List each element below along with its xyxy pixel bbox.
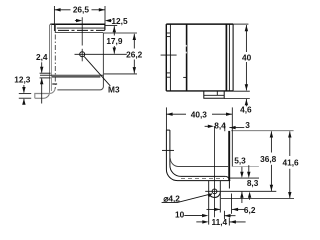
svg-text:10: 10 bbox=[175, 210, 185, 220]
svg-text:8,4: 8,4 bbox=[214, 120, 226, 130]
svg-text:M3: M3 bbox=[108, 84, 120, 94]
svg-text:12,5: 12,5 bbox=[111, 16, 128, 26]
svg-text:6,2: 6,2 bbox=[244, 205, 256, 215]
svg-text:8,3: 8,3 bbox=[247, 178, 259, 188]
svg-text:11,4: 11,4 bbox=[211, 217, 227, 227]
svg-text:⌀4,2: ⌀4,2 bbox=[163, 193, 180, 203]
svg-text:5,3: 5,3 bbox=[234, 156, 246, 166]
svg-text:2,4: 2,4 bbox=[36, 52, 48, 62]
svg-text:4,6: 4,6 bbox=[240, 104, 252, 114]
svg-text:40,3: 40,3 bbox=[191, 109, 208, 119]
svg-text:17,9: 17,9 bbox=[106, 36, 123, 46]
svg-text:26,5: 26,5 bbox=[73, 5, 90, 15]
svg-text:12,3: 12,3 bbox=[14, 74, 31, 84]
svg-text:36,8: 36,8 bbox=[260, 154, 277, 164]
svg-text:41,6: 41,6 bbox=[283, 157, 300, 167]
svg-text:3: 3 bbox=[245, 120, 250, 130]
svg-text:40: 40 bbox=[242, 52, 252, 62]
svg-text:26,2: 26,2 bbox=[126, 49, 143, 59]
